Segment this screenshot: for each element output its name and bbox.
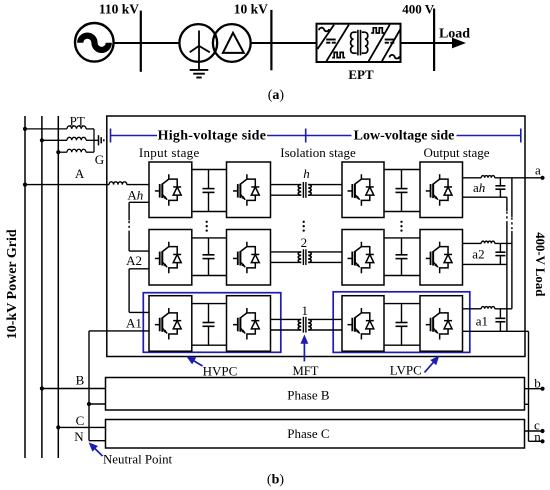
svg-text:110 kV: 110 kV — [99, 2, 139, 17]
svg-text:HVPC: HVPC — [203, 364, 238, 379]
svg-text:Phase B: Phase B — [287, 388, 330, 403]
svg-text:10-kV Power Grid: 10-kV Power Grid — [5, 229, 20, 339]
svg-text:Low-voltage side: Low-voltage side — [354, 128, 455, 143]
svg-text:Phase C: Phase C — [287, 426, 329, 441]
svg-text:PT: PT — [70, 113, 85, 128]
svg-text:Ah: Ah — [127, 187, 143, 202]
svg-text:2: 2 — [301, 235, 308, 250]
svg-text:B: B — [76, 372, 85, 387]
svg-text:Load: Load — [439, 27, 470, 42]
svg-text:ah: ah — [473, 180, 485, 195]
svg-text:A2: A2 — [126, 253, 142, 268]
svg-text:a2: a2 — [472, 247, 484, 262]
svg-text:Isolation stage: Isolation stage — [280, 145, 356, 160]
svg-text:a1: a1 — [476, 314, 488, 329]
svg-text:A1: A1 — [126, 316, 142, 331]
svg-text:EPT: EPT — [348, 67, 374, 82]
svg-text:High-voltage side: High-voltage side — [158, 128, 267, 143]
svg-text:Output stage: Output stage — [423, 145, 489, 160]
svg-text:1: 1 — [302, 303, 309, 318]
svg-text:Neutral Point: Neutral Point — [103, 453, 173, 467]
svg-text:LVPC: LVPC — [390, 362, 422, 377]
svg-text:A: A — [75, 166, 85, 181]
svg-text:Input stage: Input stage — [139, 145, 200, 160]
svg-text:10 kV: 10 kV — [234, 2, 268, 17]
svg-text:MFT: MFT — [292, 364, 318, 378]
svg-text:400 V: 400 V — [402, 2, 435, 17]
svg-text:h: h — [303, 166, 310, 181]
svg-text:C: C — [76, 413, 85, 428]
svg-text:(a): (a) — [268, 88, 285, 103]
svg-text:n: n — [534, 429, 541, 444]
svg-text:a: a — [535, 163, 541, 178]
svg-text:G: G — [95, 152, 104, 167]
svg-text:400-V Load: 400-V Load — [533, 232, 547, 296]
svg-text:b: b — [534, 376, 541, 391]
svg-text:N: N — [74, 429, 84, 444]
svg-text:(b): (b) — [267, 473, 284, 488]
